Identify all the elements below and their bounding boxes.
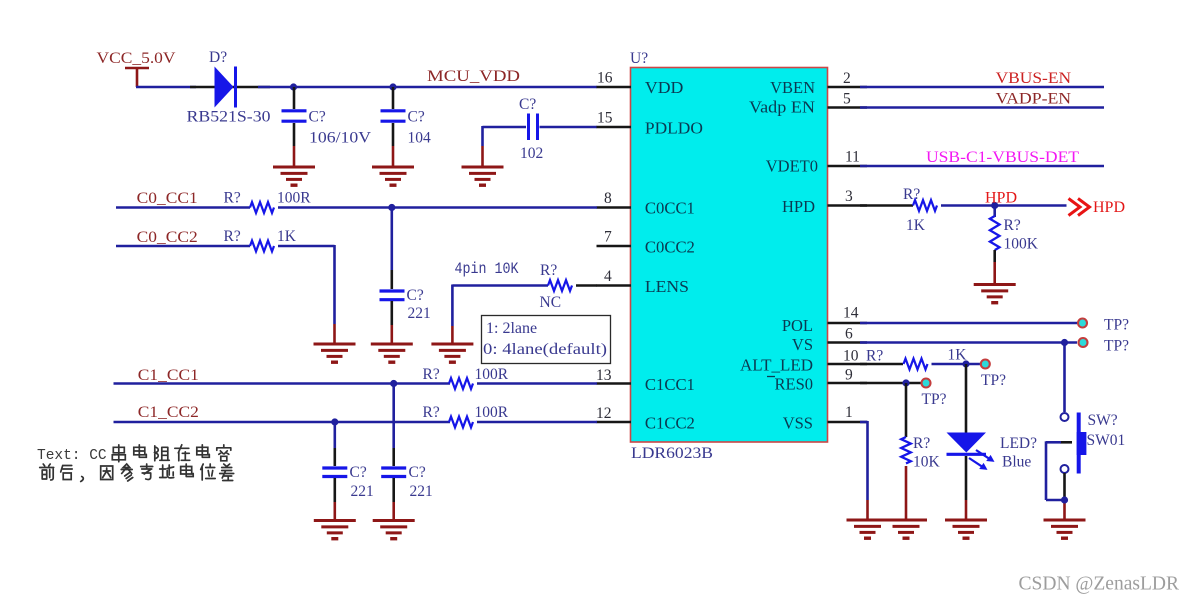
pin 11 VDET0 stub <box>828 165 868 168</box>
svg-text:TP?: TP? <box>1104 317 1129 334</box>
svg-text:RB521S-30: RB521S-30 <box>187 109 271 126</box>
svg-text:C?: C? <box>409 464 426 481</box>
testpoint TP? (POL) <box>1078 319 1087 328</box>
pin 13 C1CC1 stub <box>597 382 632 385</box>
ground under VSS <box>847 520 889 538</box>
svg-text:1: 1 <box>845 404 853 421</box>
junction node VS/switch <box>1061 339 1068 346</box>
resistor R? 1K (ALT_LED) <box>904 359 928 370</box>
svg-text:C?: C? <box>519 96 536 113</box>
pin 14 POL stub <box>828 322 868 325</box>
pin 7 C0CC2 stub <box>597 245 632 248</box>
svg-text:15: 15 <box>597 110 613 127</box>
chip U? LDR6023B body <box>631 68 828 443</box>
svg-text:C0CC1: C0CC1 <box>645 199 695 218</box>
svg-text:4pin 10K: 4pin 10K <box>455 260 520 278</box>
wire LENS corner <box>452 285 548 344</box>
resistor R? 100R (C0_CC1) <box>250 202 274 213</box>
svg-text:R?: R? <box>540 262 557 279</box>
testpoint TP? (RES0) <box>922 379 931 388</box>
svg-text:HPD: HPD <box>1093 199 1125 216</box>
svg-text:TP?: TP? <box>1104 338 1129 355</box>
junction node RES0 <box>902 379 909 386</box>
svg-text:POL: POL <box>782 316 813 335</box>
ground under C1_CC2 cap <box>314 521 356 539</box>
svg-text:SW01: SW01 <box>1087 432 1126 449</box>
pin 2 VBEN stub <box>828 86 868 89</box>
svg-text:221: 221 <box>410 483 433 500</box>
svg-text:USB-C1-VBUS-DET: USB-C1-VBUS-DET <box>926 149 1079 166</box>
junction node at C2 <box>389 83 396 90</box>
ground under switch <box>1044 520 1086 538</box>
svg-text:VCC_5.0V: VCC_5.0V <box>97 50 176 67</box>
svg-text:MCU_VDD: MCU_VDD <box>427 68 520 85</box>
junction node C1_CC2/cap <box>331 418 338 425</box>
svg-text:LENS: LENS <box>645 277 689 296</box>
svg-text:C?: C? <box>350 464 367 481</box>
resistor R? NC (LENS) <box>548 280 572 291</box>
pin 16 VDD stub <box>597 86 632 89</box>
wire C1_CC2 <box>114 421 451 424</box>
svg-text:HPD: HPD <box>782 197 815 216</box>
svg-text:8: 8 <box>604 190 612 207</box>
svg-text:100K: 100K <box>1004 236 1039 253</box>
resistor R? 100K vertical <box>990 206 1000 284</box>
svg-text:C?: C? <box>407 287 424 304</box>
svg-text:R?: R? <box>913 435 930 452</box>
svg-text:C?: C? <box>408 109 425 126</box>
LED? Blue <box>947 364 995 519</box>
svg-text:VDD: VDD <box>645 78 684 97</box>
svg-text:102: 102 <box>520 145 543 162</box>
svg-text:4: 4 <box>604 268 612 285</box>
wire HPD pin3 to resistor <box>860 204 913 207</box>
resistor R? 100R (C1_CC2) <box>449 417 473 428</box>
svg-text:R?: R? <box>1004 217 1021 234</box>
svg-text:D?: D? <box>209 49 227 66</box>
svg-text:3: 3 <box>845 188 853 205</box>
wire resistor to TP (ALT_LED) <box>932 363 981 366</box>
ground under LENS <box>431 344 473 362</box>
pin 10 ALT_LED stub <box>828 363 868 366</box>
ground under C 221 <box>371 344 413 362</box>
svg-text:12: 12 <box>596 405 612 422</box>
svg-text:NC: NC <box>540 294 562 311</box>
switch SW? SW01 <box>1046 343 1086 520</box>
wire ALT_LED to resistor <box>860 363 903 366</box>
wire VADP-EN <box>860 106 1104 109</box>
wire PDLDO left corner <box>483 126 527 166</box>
capacitor C? 102 <box>529 114 598 141</box>
wire resistor to HPD port <box>941 204 1067 207</box>
svg-text:LDR6023B: LDR6023B <box>631 445 713 462</box>
svg-text:100R: 100R <box>277 190 311 207</box>
svg-text:VSS: VSS <box>783 414 813 433</box>
svg-text:SW?: SW? <box>1088 412 1118 429</box>
svg-text:221: 221 <box>408 305 431 322</box>
svg-text:C?: C? <box>309 109 326 126</box>
svg-text:1K: 1K <box>277 228 297 245</box>
ground under C 104 <box>372 167 414 185</box>
wire VSS corner to ground <box>860 421 868 519</box>
wire C1_CC1 <box>114 382 451 385</box>
svg-text:C0_CC1: C0_CC1 <box>137 190 198 207</box>
capacitor C? 104 <box>381 87 406 166</box>
svg-text:R?: R? <box>423 366 440 383</box>
svg-text:VBUS-EN: VBUS-EN <box>996 70 1072 87</box>
svg-text:PDLDO: PDLDO <box>645 119 703 138</box>
port HPD chevrons <box>1069 199 1090 216</box>
svg-text:VBEN: VBEN <box>770 78 815 97</box>
junction node C1_CC1/cap <box>390 380 397 387</box>
wire RES0 <box>860 382 921 385</box>
svg-text:ALT_LED: ALT_LED <box>740 356 813 375</box>
svg-text:221: 221 <box>351 483 374 500</box>
capacitor C? 106/10V <box>282 87 307 166</box>
svg-text:C0CC2: C0CC2 <box>645 238 695 257</box>
wire VCC to diode <box>136 86 196 89</box>
pin 9 RES0 stub <box>828 382 868 385</box>
svg-text:106/10V: 106/10V <box>309 130 372 147</box>
ground under C 106 <box>273 167 315 185</box>
svg-text:VDET0: VDET0 <box>766 157 818 176</box>
junction node ALT_LED/LED <box>962 360 969 367</box>
svg-text:C1CC2: C1CC2 <box>645 414 695 433</box>
wire C0_CC1 to pin 8 <box>278 206 597 209</box>
wire C0_CC1 <box>116 206 250 209</box>
svg-text:6: 6 <box>845 326 853 343</box>
svg-text:VS: VS <box>792 335 813 354</box>
svg-text:11: 11 <box>845 149 860 166</box>
wire POL to TP <box>860 322 1077 325</box>
wire resistor to pin 4 <box>576 284 597 287</box>
pin 3 HPD stub <box>828 204 868 207</box>
svg-text:R?: R? <box>224 190 241 207</box>
svg-text:10: 10 <box>843 348 859 365</box>
junction node HPD <box>991 202 998 209</box>
note text line2 hanzi <box>40 464 234 482</box>
capacitor C? 221 (C1_CC1) <box>381 384 406 521</box>
ground under C1_CC1 cap <box>373 521 415 539</box>
svg-text:R?: R? <box>866 348 883 365</box>
wire USB-C1-VBUS-DET <box>860 165 1104 168</box>
testpoint TP? (VS) <box>1079 338 1088 347</box>
svg-text:5: 5 <box>843 91 851 108</box>
diode D? RB521S-30 <box>215 67 236 108</box>
svg-text:0: 4lane(default): 0: 4lane(default) <box>483 341 607 358</box>
wire VBUS-EN <box>860 86 1104 89</box>
svg-text:U?: U? <box>630 50 648 67</box>
wire VS to TP <box>860 341 1077 344</box>
svg-text:Text: CC: Text: CC <box>37 448 107 464</box>
ground under 10K <box>885 520 927 538</box>
junction node switch/ground <box>1061 496 1068 503</box>
svg-text:R?: R? <box>903 186 920 203</box>
pin 12 C1CC2 stub <box>597 421 632 424</box>
junction node at C1 <box>290 83 297 90</box>
svg-text:13: 13 <box>596 367 612 384</box>
pin 15 PDLDO stub <box>597 126 632 129</box>
pin 8 C0CC1 stub <box>597 206 632 209</box>
resistor R? 100R (C1_CC1) <box>449 378 473 389</box>
resistor R? 10K vertical <box>901 383 911 519</box>
capacitor C? 221 (C1_CC2) <box>322 422 347 520</box>
svg-text:100R: 100R <box>475 366 509 383</box>
svg-text:C1_CC1: C1_CC1 <box>138 367 199 384</box>
power symbol VCC_5.0V bar <box>125 68 149 87</box>
ground under C0_CC2 <box>314 344 356 362</box>
pin 1 VSS stub <box>828 421 868 424</box>
svg-text:R?: R? <box>224 228 241 245</box>
junction node C0_CC1/cap <box>388 204 395 211</box>
pin 4 LENS stub <box>597 284 632 287</box>
testpoint TP? (ALT_LED) <box>981 360 990 369</box>
svg-text:9: 9 <box>845 367 853 384</box>
svg-text:LED?: LED? <box>1000 435 1037 452</box>
resistor R? 1K (C0_CC2) <box>250 241 274 252</box>
svg-text:C1_CC2: C1_CC2 <box>138 404 199 421</box>
svg-text:104: 104 <box>408 130 432 147</box>
svg-text:Vadp EN: Vadp EN <box>749 98 815 117</box>
svg-text:1K: 1K <box>906 217 926 234</box>
svg-text:10K: 10K <box>913 454 941 471</box>
overline on RES0 R <box>767 376 775 378</box>
wire C0_CC2 corner to ground <box>278 245 335 343</box>
svg-text:TP?: TP? <box>922 391 947 408</box>
ground under PDLDO <box>462 167 504 185</box>
svg-text:TP?: TP? <box>981 372 1006 389</box>
wire diode leads <box>190 86 270 89</box>
svg-text:CSDN @ZenasLDR: CSDN @ZenasLDR <box>1019 573 1180 595</box>
note text line1 hanzi <box>112 445 231 462</box>
svg-text:Blue: Blue <box>1002 454 1031 471</box>
svg-text:VADP-EN: VADP-EN <box>996 91 1072 108</box>
svg-text:R?: R? <box>423 404 440 421</box>
svg-text:2: 2 <box>843 70 851 87</box>
wire C0_CC2 <box>116 245 250 248</box>
svg-text:HPD: HPD <box>985 190 1017 207</box>
svg-text:C0_CC2: C0_CC2 <box>137 229 198 246</box>
svg-text:16: 16 <box>597 70 613 87</box>
svg-text:1: 2lane: 1: 2lane <box>486 320 537 337</box>
svg-text:C1CC1: C1CC1 <box>645 375 695 394</box>
svg-text:RES0: RES0 <box>774 375 813 394</box>
wire C1_CC1 to pin 13 <box>477 382 597 385</box>
pin 6 VS stub <box>828 341 868 344</box>
ground under LED <box>945 520 987 538</box>
svg-text:14: 14 <box>843 305 859 322</box>
ground under 100K <box>974 285 1016 303</box>
resistor R? 1K (HPD) <box>913 200 937 211</box>
pin 5 Vadp EN stub <box>828 106 868 109</box>
note box 2lane/4lane <box>482 316 611 364</box>
wire C1_CC2 to pin 12 <box>477 421 597 424</box>
wire MCU_VDD horizontal <box>258 86 597 89</box>
capacitor C? 221 (C0 row) <box>380 208 405 344</box>
svg-text:7: 7 <box>604 229 612 246</box>
svg-text:100R: 100R <box>475 404 509 421</box>
